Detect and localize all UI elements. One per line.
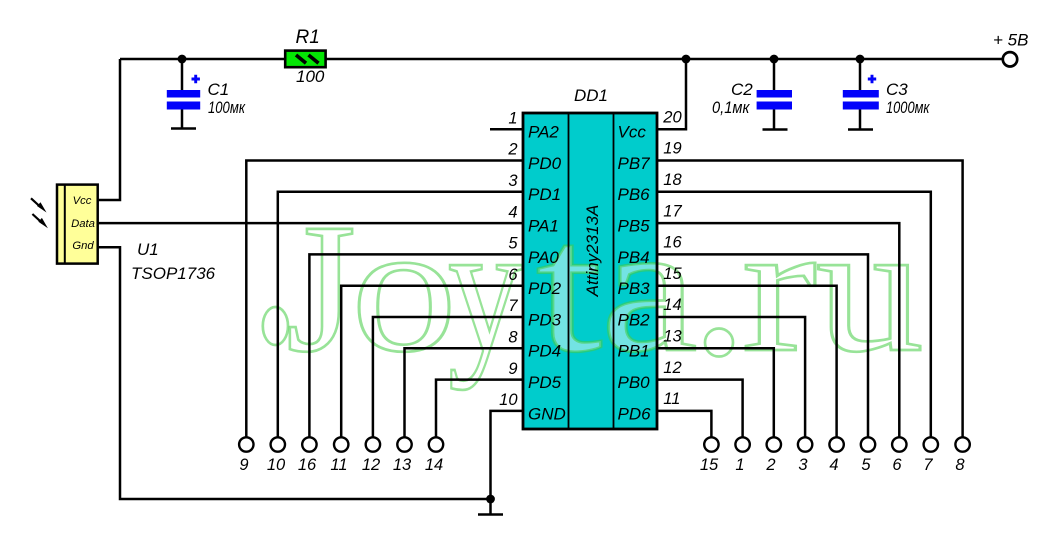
svg-text:PD3: PD3 [528,310,562,329]
C2 bottom terminal bar [763,128,788,131]
svg-text:7: 7 [508,297,518,315]
wire C2 lead bottom [773,109,776,129]
wire pin19 PB7 to terminal 8 [657,161,963,438]
svg-text:PD2: PD2 [528,279,562,298]
svg-text:14: 14 [425,456,443,474]
svg-text:TSOP1736: TSOP1736 [131,264,216,283]
svg-text:13: 13 [393,456,412,474]
svg-text:PA2: PA2 [528,123,559,142]
svg-text:J: J [286,186,356,391]
svg-text:C2: C2 [731,80,753,99]
wire pin12 PB0 to terminal 1 [657,380,743,438]
svg-text:18: 18 [663,171,682,189]
terminal numbers bottom left [239,456,443,474]
node pin20/rail [682,55,691,64]
svg-text:3: 3 [798,456,808,474]
svg-text:20: 20 [662,108,682,126]
svg-text:10: 10 [267,456,286,474]
svg-text:11: 11 [663,390,680,408]
svg-text:PB3: PB3 [618,279,651,298]
svg-text:PB2: PB2 [618,310,651,329]
svg-text:PB1: PB1 [618,342,650,361]
wire U1 Vcc riser [97,59,120,200]
svg-text:12: 12 [663,359,681,377]
svg-text:C3: C3 [886,80,908,99]
svg-text:PD4: PD4 [528,342,561,361]
svg-text:DD1: DD1 [574,86,608,105]
svg-text:5: 5 [508,235,518,253]
terminal 3 [798,437,812,451]
node ground junction [486,495,495,504]
wire pin16 PB4 to terminal 5 [657,254,868,437]
terminal 14 [429,437,443,451]
wire pin18 PB6 to terminal 7 [657,192,931,438]
svg-text:PB6: PB6 [618,185,651,204]
svg-text:1000мк: 1000мк [886,98,930,117]
wire pin9 PD5 to terminal 14 [436,380,523,438]
svg-text:C1: C1 [208,80,230,99]
wire pin14 PB2 to terminal 3 [657,317,805,437]
svg-text:6: 6 [508,266,518,284]
IC DD1 border and dividers [523,113,657,429]
svg-text:Data: Data [71,218,95,230]
svg-text:+ 5В: + 5В [993,31,1028,50]
wire pin1 stub [490,128,523,131]
wire pin3 PD1 to terminal 10 [278,192,523,438]
svg-text:2: 2 [507,141,517,159]
terminal 2 [767,437,781,451]
svg-text:PD1: PD1 [528,185,561,204]
svg-text:1: 1 [735,456,744,474]
wire pin17 PB5 to terminal 6 [657,223,899,437]
terminal 15 [704,437,718,451]
svg-text:U1: U1 [137,240,159,259]
terminal 13 [397,437,411,451]
svg-text:5: 5 [861,456,871,474]
terminal 16 [302,437,316,451]
svg-text:6: 6 [892,456,902,474]
svg-text:100мк: 100мк [208,98,246,117]
svg-text:Attiny2313A: Attiny2313A [583,205,602,298]
svg-text:10: 10 [499,391,518,409]
U1 IR arrows [31,198,48,228]
svg-text:17: 17 [663,202,682,220]
watermark Joyta.ru [263,186,924,391]
terminal 11 [334,437,348,451]
svg-text:19: 19 [663,140,681,158]
wire C1 lead top [181,59,184,91]
wire U1 Gnd to ground rail [97,247,491,499]
svg-text:16: 16 [663,234,682,252]
terminal 6 [892,437,906,451]
svg-text:11: 11 [330,456,347,474]
capacitor C3 [843,75,879,110]
svg-text:u: u [816,186,924,391]
terminal circles bottom right [704,437,970,451]
wire C3 lead bottom [859,109,862,129]
svg-text:4: 4 [829,456,838,474]
svg-text:13: 13 [663,328,682,346]
wire pin4 PA1 to U1 Data [97,222,523,225]
+5V supply terminal [1003,52,1017,66]
resistor R1 [285,51,325,68]
wire pin7 PD3 to terminal 12 [373,317,523,437]
svg-text:16: 16 [298,456,317,474]
node C1/rail [178,55,187,64]
wire C1 lead bottom [181,109,184,129]
svg-text:14: 14 [663,296,681,314]
svg-text:7: 7 [923,456,933,474]
svg-text:R1: R1 [296,27,320,48]
svg-text:9: 9 [508,360,517,378]
svg-text:PA1: PA1 [528,217,559,236]
wire pin6 PD2 to terminal 11 [341,286,523,438]
svg-text:100: 100 [296,67,325,86]
svg-text:0,1мк: 0,1мк [712,98,750,117]
terminal 10 [271,437,285,451]
node C2/rail [770,55,779,64]
svg-text:4: 4 [508,203,517,221]
wire C3 lead top [859,59,862,91]
svg-text:12: 12 [362,456,380,474]
IR receiver U1 [57,185,98,264]
svg-text:3: 3 [508,172,518,190]
IC DD1 labels [528,86,651,423]
svg-text:2: 2 [765,456,775,474]
svg-text:PB7: PB7 [618,154,651,173]
capacitor C1 [167,75,200,110]
svg-text:Vcc: Vcc [618,123,647,142]
wire C2 lead top [773,59,776,91]
terminal 1 [735,437,749,451]
pin numbers right [662,108,682,408]
capacitor C2 [757,90,792,110]
terminal 7 [924,437,938,451]
wire top +5V rail [120,58,1002,61]
terminal 9 [239,437,253,451]
svg-text:1: 1 [508,109,517,127]
svg-text:8: 8 [955,456,965,474]
wire pin13 PB1 to terminal 2 [657,348,774,437]
wire pin20 to rail [657,59,686,129]
node C3/rail [856,55,865,64]
svg-text:Gnd: Gnd [72,240,94,252]
ground symbol [489,499,492,514]
svg-text:15: 15 [700,456,719,474]
svg-text:PD5: PD5 [528,373,562,392]
IC DD1 body fill [523,113,657,429]
wire pin2 PD0 to terminal 9 [246,161,523,438]
C1 bottom terminal bar [171,127,196,130]
wire pin11 PD6 to terminal 15 [657,411,711,438]
svg-text:8: 8 [508,329,518,347]
terminal circles bottom left [239,437,443,451]
terminal 8 [955,437,969,451]
wire pin8 PD4 to terminal 13 [405,348,524,437]
svg-text:PD0: PD0 [528,154,562,173]
terminal 4 [829,437,843,451]
terminal 5 [861,437,875,451]
wire pin15 PB3 to terminal 4 [657,286,837,438]
C3 bottom terminal bar [848,128,873,131]
svg-text:PB5: PB5 [618,217,651,236]
terminal numbers bottom right [700,456,966,474]
svg-text:PA0: PA0 [528,248,559,267]
terminal 12 [366,437,380,451]
svg-text:PB0: PB0 [618,373,651,392]
wire pin5 PA0 to terminal 16 [309,254,523,437]
svg-text:Vcc: Vcc [73,195,92,207]
svg-text:PB4: PB4 [618,248,650,267]
svg-text:9: 9 [239,456,248,474]
svg-text:PD6: PD6 [618,404,652,423]
svg-text:15: 15 [663,265,682,283]
svg-text:GND: GND [528,404,566,423]
wire pin10 GND down [491,411,524,499]
pin numbers left [499,109,518,409]
